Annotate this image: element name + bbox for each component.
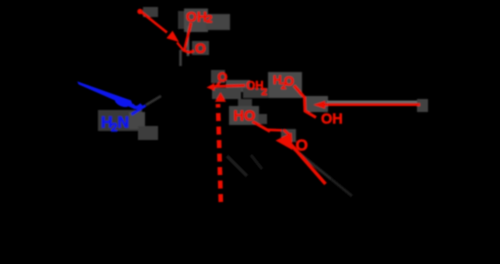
svg-text:2: 2 xyxy=(111,123,117,135)
ghost bond ester diagonal xyxy=(294,149,331,179)
red wedge head under O xyxy=(207,83,215,91)
ghost label box O ring xyxy=(192,41,209,55)
red long arrow head xyxy=(314,101,326,109)
red hook under anomeric O xyxy=(214,82,221,87)
svg-text:O: O xyxy=(195,40,206,56)
red long arrow shaft xyxy=(325,103,420,106)
svg-text:N: N xyxy=(118,115,130,132)
ghost label box H2N xyxy=(98,110,158,140)
ghost bond above long arrow xyxy=(327,101,418,103)
svg-text:2: 2 xyxy=(262,87,268,98)
svg-text:2: 2 xyxy=(206,13,212,25)
ghost label box H2O xyxy=(268,72,302,98)
svg-text:HO: HO xyxy=(234,109,256,125)
ghost label box carbonyl O xyxy=(281,129,296,142)
red arrow head top-left xyxy=(166,31,179,42)
red bond HO-C xyxy=(253,122,271,132)
ghost label box O anomeric xyxy=(211,70,250,99)
ghost wedge ring interior xyxy=(227,156,247,176)
red arrow shaft diagonal xyxy=(291,145,326,185)
blue bond N-C xyxy=(132,106,146,115)
svg-text:OH: OH xyxy=(321,112,343,128)
svg-text:OH: OH xyxy=(186,8,207,24)
blue hook at wedge end xyxy=(132,105,142,108)
svg-text:O: O xyxy=(284,74,294,89)
ghost bond ring left xyxy=(179,50,182,66)
ghost bond ring interior 2 xyxy=(251,155,262,169)
label H2N xyxy=(101,115,129,135)
red bond O-C5 xyxy=(214,85,245,86)
red thin tail to C2 xyxy=(177,43,185,52)
red arrow head diagonal xyxy=(276,133,293,150)
red bond H2O down xyxy=(294,86,316,118)
ghost label box HO xyxy=(229,99,267,125)
red dashed arrow shaft xyxy=(218,104,221,202)
ghost bond C2-OH2 xyxy=(187,26,190,56)
ghost bond N-C xyxy=(146,96,161,105)
blue wedge bulge xyxy=(114,96,131,109)
blue wedge bond to N xyxy=(77,81,134,109)
red double bond C=O line2 xyxy=(284,130,291,137)
red double bond C=O line1 xyxy=(268,129,282,132)
label H2O xyxy=(273,73,294,92)
ghost patch near red dot xyxy=(143,7,158,17)
ghost label box top OH2 xyxy=(178,9,230,33)
ghost vertex right end xyxy=(417,99,428,112)
red bond OH2 to C2 curve xyxy=(185,23,191,51)
ghost strip under OH2 text xyxy=(243,88,269,98)
red dashed arrow head xyxy=(215,93,226,102)
label OH2 middle xyxy=(246,81,267,99)
red dot methyl terminus xyxy=(137,9,142,14)
red hook to ring O xyxy=(185,51,194,53)
ghost bond ester diagonal tail xyxy=(331,179,352,196)
ghost label box arrowhead OH xyxy=(305,96,328,112)
label OH2 top xyxy=(186,8,212,25)
red wedge bond C-OH2 xyxy=(140,11,167,33)
